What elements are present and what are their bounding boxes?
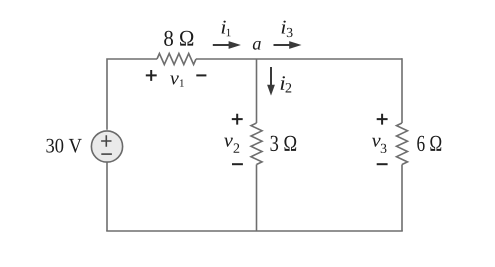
- v1 plus sign: [146, 70, 157, 81]
- label v2: [224, 138, 233, 147]
- label i3: [282, 21, 286, 34]
- voltage source Vs circle: [91, 131, 122, 162]
- wire middle vertical upper (node a to R2): [256, 59, 258, 123]
- label 3 ohm: [271, 136, 297, 151]
- resistor R3 6ohm zigzag: [397, 123, 408, 165]
- current arrow i1 head: [229, 41, 241, 49]
- v2 plus sign: [232, 114, 243, 125]
- wire left vertical upper and top-left segment to R1: [107, 59, 157, 130]
- voltage source plus sign: [101, 135, 111, 147]
- label v1 subscript: [180, 79, 184, 86]
- label i2: [281, 76, 285, 90]
- current arrow i2 shaft: [270, 67, 272, 86]
- label i1 subscript: [227, 29, 231, 36]
- label v3: [372, 138, 381, 147]
- wire left vertical lower (source to bottom-left corner): [106, 162, 108, 231]
- wire right vertical upper (corner to R3): [401, 58, 403, 123]
- label v3 subscript: [381, 144, 387, 153]
- wire top segment R1 to top-right corner: [196, 58, 402, 60]
- current arrow i2 head: [267, 85, 275, 96]
- v3 plus sign: [377, 114, 388, 125]
- resistor R2 3ohm zigzag: [251, 123, 262, 165]
- current arrow i3 shaft: [274, 44, 292, 46]
- label v2 subscript: [234, 143, 240, 152]
- wire middle vertical lower (R2 to bottom wire): [256, 165, 258, 232]
- voltage source minus sign: [101, 153, 112, 155]
- label 8 ohm: [164, 31, 193, 46]
- wire right vertical lower (R3 to bottom corner): [401, 165, 403, 232]
- v3 minus sign: [377, 163, 388, 165]
- node a label: [253, 41, 261, 50]
- label v1: [170, 75, 179, 84]
- current arrow i1 shaft: [213, 44, 230, 46]
- current arrow i3 head: [289, 41, 301, 49]
- label i1: [222, 21, 226, 34]
- label 30 V: [46, 139, 81, 153]
- label i3 subscript: [287, 28, 293, 37]
- label 6 ohm: [417, 136, 441, 151]
- v1 minus sign: [196, 74, 206, 76]
- resistor R1 8ohm zigzag: [157, 54, 196, 65]
- wire bottom horizontal: [106, 230, 403, 232]
- label i2 subscript: [286, 83, 292, 92]
- v2 minus sign: [232, 163, 243, 165]
